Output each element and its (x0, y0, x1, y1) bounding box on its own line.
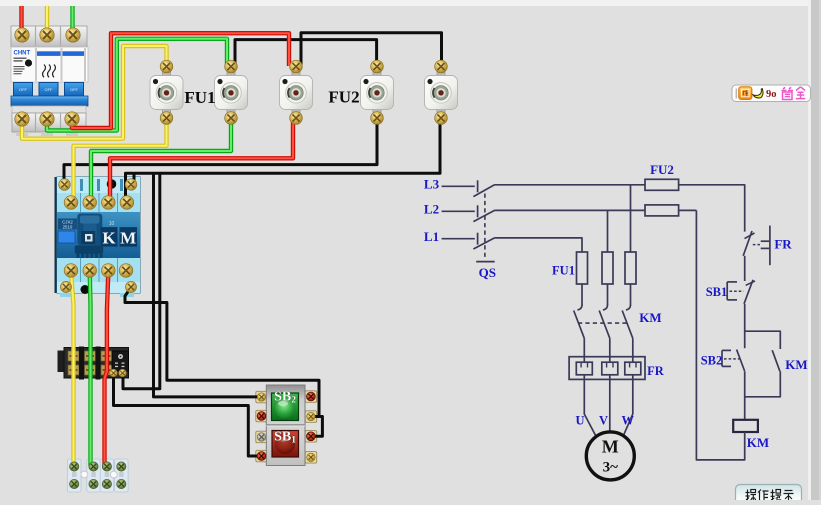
wire QF to FU1b (green) (47, 39, 227, 131)
wire FU1b to KM L2 (green) (91, 119, 231, 201)
switch QS link (dashed) (484, 194, 486, 259)
wire KM contact 3 to FR heater (632, 338, 634, 357)
wire KM contact 1 to FR heater (583, 338, 585, 357)
wire KM T1 to XT (yellow) (71, 272, 74, 466)
contactor KM body (55, 177, 141, 297)
wire L1 drop to FU1a (495, 238, 583, 252)
fuse FU1a body (150, 71, 183, 114)
wire FU1c to KM contact (630, 284, 632, 304)
svg-text:10: 10 (109, 221, 115, 227)
wire L2 supply stub (yellow) (45, 6, 49, 34)
thermal relay FR body (58, 347, 129, 380)
svg-text:M: M (120, 229, 136, 248)
svg-text:FR: FR (647, 364, 665, 378)
wire L3 drop to FU1c (630, 185, 632, 252)
svg-text:FU2: FU2 (650, 162, 674, 177)
wire FU1a to KM L1 (yellow) (74, 119, 167, 201)
circuit breaker QF body (11, 26, 88, 136)
wire FU2b bottom to KM coil A2 (134, 119, 440, 184)
wire FU2a bottom to KM coil A1 (64, 119, 377, 183)
wire W lead (623, 375, 633, 436)
wire FU1b to KM contact (607, 284, 609, 304)
wire QF to FU1a (yellow) (22, 46, 167, 139)
svg-text:9o: 9o (766, 89, 777, 100)
fuse FU1b terminals (225, 60, 238, 124)
svg-text:U: U (575, 414, 584, 428)
svg-text:K: K (102, 229, 116, 248)
wire L2 lead-in (442, 210, 475, 212)
svg-text:L3: L3 (424, 177, 440, 192)
thermal relay FR box (569, 357, 645, 380)
contactor KM main contact 3 (626, 304, 631, 311)
wire FU2a to control column (679, 185, 745, 232)
wire FR heater 2 through (609, 357, 611, 362)
coil KM (733, 420, 758, 432)
wire FU1a to KM contact (581, 284, 583, 304)
wire L1 lead-in (442, 238, 475, 240)
wire L1 supply stub (red) (19, 6, 23, 34)
switch QS pole L1 fixed contact (477, 233, 479, 245)
wire fuse FU1b top to FU2a top (235, 40, 377, 66)
wire FR NC to SB1 terminal (114, 373, 259, 456)
svg-text:L1: L1 (424, 229, 439, 244)
thermal relay FR heater 2 (602, 362, 618, 375)
wire SB2 to coil (744, 371, 746, 419)
wire branch to FR NC terminal (123, 173, 160, 388)
pushbutton terminals (257, 392, 315, 461)
svg-text:KM: KM (747, 435, 769, 450)
svg-text:2510: 2510 (63, 225, 73, 230)
pushbutton panel SB1 SB2 body (256, 385, 317, 466)
svg-text:W: W (622, 414, 635, 428)
svg-text:OFF: OFF (19, 87, 28, 92)
wire fuse FU1c top to FU2b top (301, 33, 442, 66)
wire FR heater 3 through (632, 357, 634, 362)
svg-text:FU1: FU1 (184, 88, 215, 107)
svg-text:V: V (599, 414, 608, 428)
terminal strip XT body (68, 459, 129, 492)
fuse FU2a body (361, 71, 394, 114)
wire jumper coil A2 to KM terminal 4 (126, 173, 134, 201)
svg-text:FU1: FU1 (552, 264, 575, 278)
wire FU1c to KM L3 (red) (110, 119, 293, 201)
fuse FU2a (645, 179, 679, 190)
contactor KM link (dashed) (578, 322, 627, 324)
svg-text:QS: QS (479, 265, 496, 280)
wire L3 lead-in (442, 185, 475, 187)
wire branch to KM aux (745, 331, 781, 349)
svg-text:3~: 3~ (603, 460, 619, 476)
terminal strip XT screws (70, 462, 126, 489)
thermal relay FR 95/96 terminals (110, 369, 127, 377)
fuse FU1b body (215, 71, 248, 114)
switch QS pole L1 blade (473, 238, 494, 249)
watermark logo (732, 85, 811, 102)
fuse FU2b (645, 205, 679, 216)
fuse FU1b (602, 252, 613, 284)
switch QS handle bar (476, 261, 495, 263)
contactor KM main contact 1 (578, 304, 583, 311)
fuse FU1c body (280, 71, 313, 114)
motor M 3~ (586, 432, 634, 480)
tip button 操作提示 (736, 485, 802, 504)
svg-text:FU2: FU2 (328, 88, 359, 107)
contactor KM aux contact (NO) (745, 350, 781, 397)
svg-text:L2: L2 (424, 202, 439, 217)
thermal relay FR heater 1 (576, 362, 592, 375)
svg-text:CHNT: CHNT (14, 51, 31, 57)
switch QS pole L2 fixed contact (477, 205, 479, 217)
wire branch to SB2 NO terminal (154, 173, 259, 397)
wire KM T2 to XT (green) (87, 272, 92, 466)
switch QS pole L3 blade (473, 185, 494, 197)
svg-text:SB2: SB2 (701, 354, 723, 368)
fuse FU2b body (425, 71, 458, 114)
wire FU2b to return column (679, 209, 697, 211)
fuse FU2a terminals (371, 60, 384, 124)
wire KM contact 2 to FR heater (609, 338, 611, 357)
pushbutton SB1 (NC) (727, 280, 755, 304)
svg-text:OFF: OFF (70, 87, 79, 92)
wire U lead (584, 375, 596, 437)
pushbutton SB2 (NO) (722, 350, 745, 371)
fuse FU1a (577, 252, 588, 284)
fuse FU2b terminals (435, 60, 448, 124)
svg-text:SB1: SB1 (706, 285, 728, 299)
fuse FU1c terminals (290, 60, 303, 124)
svg-text:KM: KM (639, 310, 661, 325)
switch QS pole L2 blade (473, 210, 494, 221)
wire SB1 to SB2 (744, 304, 746, 348)
fuse FU1c (625, 252, 636, 284)
svg-text:OFF: OFF (45, 87, 54, 92)
wire L2 drop to FU1b (607, 210, 609, 252)
thermal relay FR heater 3 (625, 362, 641, 375)
circuit breaker QF terminals (15, 28, 80, 126)
wire L3 to FU2a (495, 184, 646, 186)
wire FR heater 1 through (583, 357, 585, 362)
svg-text:KM: KM (785, 357, 807, 372)
wire coil return (696, 210, 744, 460)
wire L3 supply stub (green) (70, 6, 74, 34)
wire KM T3 to XT (red) (105, 272, 109, 466)
svg-text:M: M (602, 437, 619, 457)
wire L2 to FU2b (495, 209, 646, 211)
fuse FU1a terminals (160, 60, 173, 124)
wire V lead (609, 375, 611, 432)
wire KM aux to buttons (125, 288, 319, 417)
wire jumper SB2 to SB1 right (312, 417, 322, 437)
contactor KM terminals (59, 179, 137, 293)
switch QS pole L3 fixed contact (477, 180, 479, 192)
svg-text:FR: FR (774, 237, 792, 252)
wire QF to FU1c (red) (72, 33, 289, 128)
thermal relay FR NC contact (743, 226, 770, 281)
contactor KM main contact 2 (603, 304, 608, 311)
